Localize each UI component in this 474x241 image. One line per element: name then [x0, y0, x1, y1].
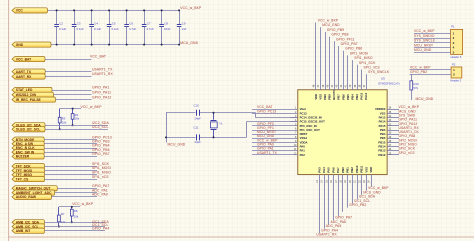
svg-text:C4: C4 — [94, 22, 98, 26]
svg-text:VDD: VDD — [314, 94, 318, 100]
svg-text:PA4: PA4 — [322, 167, 326, 173]
svg-text:ADC_PA5: ADC_PA5 — [326, 224, 342, 228]
svg-text:24pF: 24pF — [195, 140, 202, 144]
svg-text:GPIO_PA11: GPIO_PA11 — [92, 91, 111, 95]
svg-text:C7: C7 — [147, 22, 151, 26]
svg-text:GPIO_PA4: GPIO_PA4 — [321, 228, 338, 232]
svg-text:PA3: PA3 — [317, 167, 321, 173]
svg-text:C11: C11 — [194, 125, 199, 129]
svg-text:USART1_TX: USART1_TX — [92, 67, 113, 71]
svg-text:BUZZER: BUZZER — [16, 155, 30, 159]
svg-text:SYS_SWCLK: SYS_SWCLK — [368, 70, 390, 74]
svg-text:IR_REC_PULSE: IR_REC_PULSE — [16, 98, 42, 102]
svg-text:MCU_GND: MCU_GND — [180, 41, 198, 45]
svg-text:PB5: PB5 — [346, 94, 350, 100]
svg-text:PB6: PB6 — [341, 94, 345, 100]
svg-text:PA2: PA2 — [300, 153, 306, 157]
svg-text:PB0: PB0 — [341, 167, 345, 173]
svg-text:VCC_w_BKP: VCC_w_BKP — [318, 19, 339, 23]
svg-text:AUDIO_RAW: AUDIO_RAW — [16, 195, 37, 199]
svg-text:C5: C5 — [112, 22, 116, 26]
svg-text:P1: P1 — [451, 25, 455, 29]
svg-text:PA7: PA7 — [336, 167, 340, 173]
svg-text:ADC_PA6: ADC_PA6 — [331, 220, 347, 224]
svg-text:VCC_w_BKP: VCC_w_BKP — [410, 65, 431, 69]
svg-text:GPIO_PC13: GPIO_PC13 — [257, 109, 276, 113]
svg-text:PB8: PB8 — [328, 94, 332, 100]
svg-text:GPIO_PF11: GPIO_PF11 — [336, 37, 355, 41]
svg-text:I2C1_SCL: I2C1_SCL — [354, 199, 370, 203]
svg-text:VCC_w_BKP: VCC_w_BKP — [72, 202, 94, 206]
svg-text:VCC_w_BKP: VCC_w_BKP — [368, 186, 389, 190]
svg-text:GND: GND — [16, 43, 24, 47]
svg-text:24pF: 24pF — [195, 117, 202, 121]
svg-text:SYS_SWCLK: SYS_SWCLK — [414, 39, 436, 43]
svg-text:C3: C3 — [77, 22, 81, 26]
svg-text:MCU_NRST: MCU_NRST — [414, 43, 433, 47]
svg-text:SPI2_nCS: SPI2_nCS — [399, 151, 416, 155]
svg-text:GPIO_PB2: GPIO_PB2 — [349, 203, 366, 207]
svg-text:VCC_BAT: VCC_BAT — [90, 55, 106, 59]
svg-text:TFT_CS: TFT_CS — [16, 177, 29, 181]
svg-text:GPIO_PA12: GPIO_PA12 — [92, 95, 111, 99]
svg-text:C8: C8 — [164, 22, 168, 26]
svg-text:MCU_GND: MCU_GND — [363, 190, 381, 194]
svg-text:USART1_RX: USART1_RX — [92, 72, 113, 76]
svg-text:Header 5: Header 5 — [451, 55, 462, 59]
svg-text:AMB_INT: AMB_INT — [16, 229, 31, 233]
svg-text:VCC_w_BKP: VCC_w_BKP — [81, 105, 103, 109]
svg-text:STAT_LED: STAT_LED — [16, 88, 33, 92]
svg-text:C10: C10 — [194, 104, 200, 108]
svg-text:10nF: 10nF — [164, 27, 171, 31]
svg-text:SPI1_nCS: SPI1_nCS — [364, 66, 381, 70]
svg-text:PA6: PA6 — [331, 167, 335, 173]
svg-text:VCC: VCC — [16, 9, 24, 13]
svg-text:ADC_PA0: ADC_PA0 — [92, 193, 108, 197]
svg-text:4.7uF: 4.7uF — [147, 27, 154, 31]
svg-text:PB10: PB10 — [355, 165, 359, 172]
svg-text:USART1_TX: USART1_TX — [257, 151, 278, 155]
svg-text:PB12: PB12 — [378, 153, 385, 157]
svg-text:SYS_SWDIO: SYS_SWDIO — [414, 34, 435, 38]
svg-text:PB1: PB1 — [346, 167, 350, 173]
svg-text:PB7: PB7 — [337, 94, 341, 100]
svg-text:SPI1_nCS: SPI1_nCS — [92, 175, 109, 179]
svg-text:R7: R7 — [61, 212, 65, 216]
svg-text:PB4: PB4 — [350, 94, 354, 100]
svg-text:MCU_GND: MCU_GND — [168, 143, 186, 147]
svg-text:PA15: PA15 — [360, 92, 364, 99]
svg-text:4.7uF: 4.7uF — [129, 27, 136, 31]
svg-text:SPI1_MOSI: SPI1_MOSI — [350, 51, 368, 55]
svg-text:P2: P2 — [452, 63, 456, 67]
svg-text:1nF: 1nF — [182, 27, 187, 31]
svg-text:MCU_GND: MCU_GND — [416, 97, 434, 101]
svg-text:0.1uF: 0.1uF — [59, 27, 66, 31]
svg-text:57k: 57k — [414, 86, 419, 90]
svg-text:VSS: VSS — [364, 167, 368, 173]
svg-text:C2: C2 — [59, 22, 63, 26]
svg-text:BOOT0: BOOT0 — [332, 90, 336, 100]
svg-text:10k: 10k — [74, 215, 79, 219]
svg-text:GPIO_PB9: GPIO_PB9 — [327, 28, 344, 32]
svg-text:GPIO_PB8: GPIO_PB8 — [331, 33, 348, 37]
svg-text:10k: 10k — [62, 120, 67, 124]
svg-text:SPI1_SCK: SPI1_SCK — [359, 61, 376, 65]
svg-text:UART_RX: UART_RX — [16, 75, 32, 79]
svg-text:PA14: PA14 — [364, 92, 368, 99]
svg-text:0.1uF: 0.1uF — [94, 27, 101, 31]
svg-text:0.1uF: 0.1uF — [77, 27, 84, 31]
svg-text:VCC_w_BKP: VCC_w_BKP — [414, 29, 435, 33]
svg-text:PB3: PB3 — [355, 94, 359, 100]
svg-text:PB9: PB9 — [323, 94, 327, 100]
svg-text:VCC_w_BKP: VCC_w_BKP — [180, 6, 202, 10]
svg-text:VCC_BAT: VCC_BAT — [16, 57, 31, 61]
svg-text:C6: C6 — [129, 22, 133, 26]
svg-text:SPI1_MISO: SPI1_MISO — [354, 56, 373, 60]
svg-text:C9: C9 — [182, 22, 186, 26]
svg-text:GPIO_PB7: GPIO_PB7 — [92, 152, 110, 156]
svg-text:0.1uF: 0.1uF — [112, 27, 119, 31]
svg-text:STM32F091CxTx: STM32F091CxTx — [378, 81, 401, 85]
svg-text:GPIO_PA4: GPIO_PA4 — [92, 226, 109, 230]
svg-text:Y1: Y1 — [219, 122, 223, 126]
svg-text:10k: 10k — [75, 117, 80, 121]
svg-text:VSS: VSS — [318, 94, 322, 100]
svg-text:U5: U5 — [381, 76, 385, 80]
svg-text:VDD: VDD — [369, 167, 373, 173]
svg-text:OLED_I2C_SCL: OLED_I2C_SCL — [16, 128, 41, 132]
svg-text:WS2812_DIN: WS2812_DIN — [16, 93, 37, 97]
svg-text:R8: R8 — [74, 209, 78, 213]
svg-text:PB11: PB11 — [360, 165, 364, 172]
svg-text:PB2: PB2 — [350, 167, 354, 173]
svg-text:GPIO_PA1: GPIO_PA1 — [92, 86, 109, 90]
svg-text:USART1_RX: USART1_RX — [316, 233, 337, 237]
svg-text:PA5: PA5 — [327, 167, 331, 173]
svg-text:I2C1_SDA: I2C1_SDA — [359, 195, 376, 199]
svg-text:GPIO_PA7: GPIO_PA7 — [335, 216, 352, 220]
svg-text:MCU_GND: MCU_GND — [414, 48, 432, 52]
svg-text:UART_TX: UART_TX — [16, 70, 32, 74]
svg-text:GPIO_PB2: GPIO_PB2 — [410, 70, 427, 74]
svg-text:GPIO_PB6: GPIO_PB6 — [345, 47, 362, 51]
svg-text:R10: R10 — [414, 82, 420, 86]
svg-text:Header 2: Header 2 — [450, 79, 461, 83]
svg-text:MCU_GND: MCU_GND — [322, 23, 340, 27]
svg-text:I2C2_SCL: I2C2_SCL — [92, 125, 108, 129]
svg-text:GPIO_PB7: GPIO_PB7 — [341, 42, 358, 46]
